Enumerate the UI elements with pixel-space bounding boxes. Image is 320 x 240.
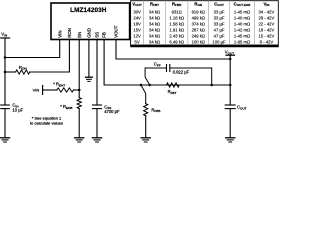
wire: RENT to EN node <box>74 89 80 91</box>
VOUT terminal bar <box>226 54 235 56</box>
svg-text:18 - 42V: 18 - 42V <box>258 27 274 32</box>
svg-text:4700 pF: 4700 pF <box>104 109 120 114</box>
wire: RFBB diagonal drop <box>141 85 146 104</box>
svg-text:47 µF: 47 µF <box>214 33 225 38</box>
svg-text:1-42 mΩ: 1-42 mΩ <box>234 27 250 32</box>
capacitor CIN <box>1 104 10 106</box>
svg-text:1-95 mΩ: 1-95 mΩ <box>234 39 250 44</box>
node junction dot VOUT/feedback <box>229 84 231 86</box>
svg-text:RFBB: RFBB <box>151 107 160 113</box>
svg-text:COUT-ESR: COUT-ESR <box>234 2 252 8</box>
capacitor COUT <box>225 104 235 106</box>
wire: CSS to ground <box>96 109 98 138</box>
wire: RFBB to ground <box>145 116 147 138</box>
svg-text:15 - 42V: 15 - 42V <box>258 33 274 38</box>
svg-text:RON: RON <box>19 65 27 71</box>
wire: EN node to RENB <box>78 90 80 98</box>
svg-text:VIN: VIN <box>33 88 40 93</box>
capacitor CSS <box>93 104 102 106</box>
node junction dot CFF/VOUT rail <box>211 84 213 86</box>
svg-text:374 kΩ: 374 kΩ <box>192 21 205 26</box>
wire: terminal to RENT <box>43 89 57 91</box>
node junction dot VIN/RON <box>4 71 6 73</box>
svg-text:LMZ14203H: LMZ14203H <box>70 7 107 14</box>
svg-text:30V: 30V <box>133 10 141 15</box>
svg-text:100 µF: 100 µF <box>212 39 226 44</box>
design table frame <box>130 1 279 47</box>
svg-text:COUT: COUT <box>237 105 247 111</box>
VIN enable terminal bar <box>42 86 44 95</box>
ground under RENB <box>75 137 84 139</box>
resistor RFBT <box>167 83 180 87</box>
svg-text:1-40 mΩ: 1-40 mΩ <box>234 21 250 26</box>
op-amp U1: LMZ14203H regulator module body <box>51 3 130 40</box>
resistor RFBB <box>144 104 148 116</box>
svg-text:1.58 kΩ: 1.58 kΩ <box>169 21 184 26</box>
resistor RENB <box>77 98 81 109</box>
svg-text:18V: 18V <box>133 21 141 26</box>
svg-text:SS: SS <box>95 32 100 38</box>
wire: COUT to ground <box>229 109 231 138</box>
design table row 15V <box>133 27 274 32</box>
svg-text:28 - 42V: 28 - 42V <box>258 15 274 20</box>
svg-text:34 kΩ: 34 kΩ <box>149 33 160 38</box>
design table header row <box>132 2 270 8</box>
svg-text:34 kΩ: 34 kΩ <box>149 15 160 20</box>
wire: CFF branch left leg <box>145 68 166 85</box>
wire: VIN rail to VIN pin <box>5 40 60 58</box>
node junction dot EN <box>78 89 80 91</box>
wire: VOUT rail down to COUT <box>229 59 231 105</box>
svg-text:33 µF: 33 µF <box>214 10 225 15</box>
ground under COUT <box>226 137 235 139</box>
wire: VIN rail to RON resistor <box>5 71 16 73</box>
svg-text:499 kΩ: 499 kΩ <box>192 15 205 20</box>
node junction dot FB/CFF <box>149 84 151 86</box>
svg-text:VOUT: VOUT <box>114 25 119 38</box>
svg-text:100 kΩ: 100 kΩ <box>192 39 205 44</box>
svg-text:FB: FB <box>102 32 107 38</box>
svg-text:to calculate values: to calculate values <box>30 120 63 125</box>
svg-text:619 kΩ: 619 kΩ <box>192 10 205 15</box>
design table row 5V <box>135 39 274 44</box>
ground under RFBB <box>141 137 150 139</box>
ground under CSS <box>92 137 101 139</box>
svg-text:10 µF: 10 µF <box>12 107 23 112</box>
svg-text:GND: GND <box>87 28 92 38</box>
node junction dot VIN/VINpin <box>4 56 6 58</box>
design table row 12V <box>133 33 274 38</box>
node junction dot VOUT rail <box>229 58 231 60</box>
ground at GND pin <box>85 76 92 78</box>
svg-text:47 µF: 47 µF <box>214 27 225 32</box>
svg-text:2.43 kΩ: 2.43 kΩ <box>169 33 184 38</box>
svg-text:34 kΩ: 34 kΩ <box>149 10 160 15</box>
wire: RENB to ground <box>78 109 80 138</box>
svg-text:34 kΩ: 34 kΩ <box>149 21 160 26</box>
svg-text:931Ω: 931Ω <box>172 10 182 15</box>
svg-text:15V: 15V <box>133 27 141 32</box>
svg-text:VOUT: VOUT <box>132 2 141 8</box>
resistor RON <box>16 70 30 74</box>
svg-text:CFF: CFF <box>154 62 161 68</box>
wire: VOUT pin to output rail <box>116 40 230 60</box>
svg-text:1-40 mΩ: 1-40 mΩ <box>234 15 250 20</box>
svg-text:5V: 5V <box>135 39 140 44</box>
design table row 30V <box>133 10 274 15</box>
svg-text:12V: 12V <box>133 33 141 38</box>
svg-text:EN: EN <box>77 32 82 38</box>
svg-text:1-45 mΩ: 1-45 mΩ <box>234 10 250 15</box>
design table row 24V <box>133 15 274 20</box>
ground under CIN <box>0 137 9 139</box>
wire: VIN rail down left side <box>4 38 6 105</box>
wire: RON resistor to RON pin <box>30 40 70 73</box>
wire: SS pin down to CSS <box>96 40 98 106</box>
svg-text:VIN: VIN <box>57 30 62 37</box>
svg-text:34 kΩ: 34 kΩ <box>149 27 160 32</box>
svg-text:6.49 kΩ: 6.49 kΩ <box>169 39 184 44</box>
wire: CFF branch right leg <box>170 68 212 85</box>
svg-text:34 kΩ: 34 kΩ <box>149 39 160 44</box>
VIN terminal bar <box>1 37 10 39</box>
svg-text:* RENB: * RENB <box>60 104 72 110</box>
wire: VOUT terminal drop <box>229 55 231 59</box>
svg-text:RFBB: RFBB <box>172 2 182 8</box>
wire: EN pin down to EN node <box>78 40 80 91</box>
svg-text:8 - 42V: 8 - 42V <box>260 39 274 44</box>
svg-text:RFBT: RFBT <box>168 89 177 95</box>
svg-text:24V: 24V <box>133 15 141 20</box>
node junction dot FB/RFBB <box>140 84 142 86</box>
svg-text:RON: RON <box>67 28 72 38</box>
svg-text:0.022 µF: 0.022 µF <box>173 70 190 75</box>
capacitor CFF <box>166 65 168 72</box>
wire: CIN to ground <box>4 109 6 138</box>
svg-text:33 µF: 33 µF <box>214 21 225 26</box>
svg-text:249 kΩ: 249 kΩ <box>192 33 205 38</box>
svg-text:* RENT: * RENT <box>53 82 65 88</box>
svg-text:RON: RON <box>194 2 202 8</box>
svg-text:33 µF: 33 µF <box>214 15 225 20</box>
wire: GND pin to ground <box>88 40 90 78</box>
svg-text:1-45 mΩ: 1-45 mΩ <box>234 33 250 38</box>
resistor RENT <box>57 88 74 92</box>
svg-text:287 kΩ: 287 kΩ <box>192 27 205 32</box>
svg-text:22 - 42V: 22 - 42V <box>258 21 274 26</box>
svg-text:1.91 kΩ: 1.91 kΩ <box>169 27 184 32</box>
svg-text:1.18 kΩ: 1.18 kΩ <box>169 15 184 20</box>
design table row 18V <box>133 21 274 26</box>
svg-text:34 - 42V: 34 - 42V <box>258 10 274 15</box>
svg-text:COUT: COUT <box>214 2 224 8</box>
svg-text:VIN: VIN <box>263 2 270 8</box>
wire: FB pin down and feedback rail <box>104 40 230 86</box>
svg-text:RFBT: RFBT <box>150 2 159 8</box>
